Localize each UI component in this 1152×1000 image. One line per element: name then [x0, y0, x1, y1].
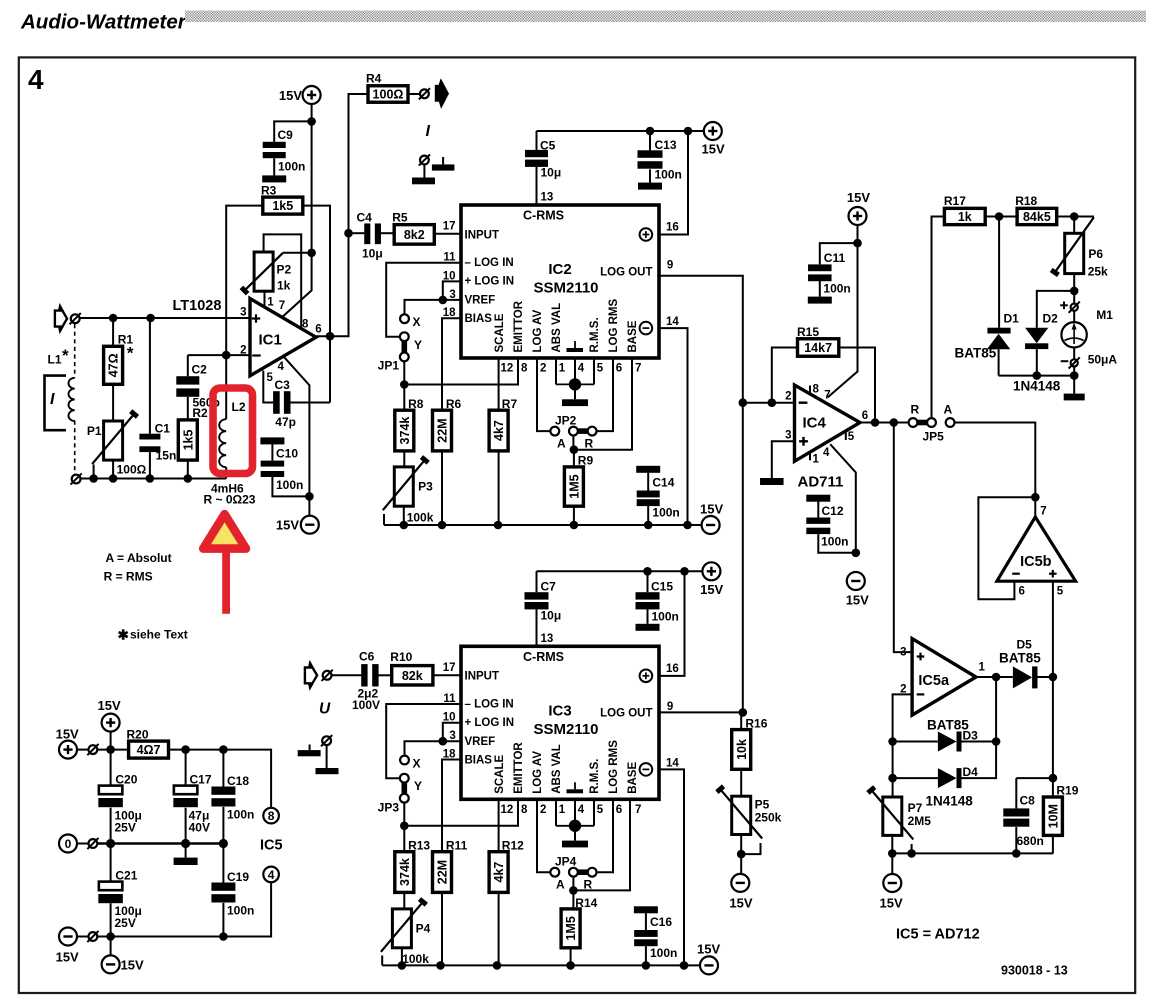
svg-text:C20: C20: [115, 773, 137, 787]
resistor R3: [263, 197, 303, 214]
output connector arrow I: [435, 78, 449, 109]
IC4 pin 5 tick: [845, 431, 847, 440]
wire: IC3 pin 9 LOG OUT to R16: [658, 711, 741, 713]
-15V input terminal: [59, 928, 77, 946]
svg-text:IC5: IC5: [260, 838, 283, 854]
wire: D1 D2 M1 common: [999, 375, 1075, 377]
svg-text:R19: R19: [1056, 784, 1078, 798]
svg-text:*: *: [62, 346, 69, 365]
svg-text:100n: 100n: [823, 281, 850, 295]
svg-text:– LOG IN: – LOG IN: [465, 257, 514, 269]
IC3 internal ground symbol: [574, 782, 576, 789]
jack I ground lug: [420, 156, 429, 165]
wire: IC3 pin 2 to JP4 A: [537, 799, 550, 872]
svg-text:15V: 15V: [702, 142, 725, 157]
header hatched bar: [185, 11, 1146, 23]
wire: P6 to meter node: [1073, 274, 1075, 304]
svg-text:R7: R7: [502, 397, 518, 411]
wire: R10 to IC3 pin 17: [433, 674, 461, 676]
svg-text:R11: R11: [446, 838, 468, 852]
resistor R16: [740, 712, 742, 729]
svg-text:16: 16: [666, 222, 679, 234]
capacitor C1: [149, 318, 151, 434]
svg-text:C14: C14: [652, 475, 674, 489]
svg-text:4: 4: [823, 447, 830, 459]
svg-text:25k: 25k: [1088, 265, 1108, 279]
wire: IC2 pin 10 bracket: [443, 281, 461, 300]
svg-text:SCALE: SCALE: [494, 754, 506, 793]
svg-text:25V: 25V: [115, 821, 136, 835]
svg-text:Y: Y: [414, 779, 422, 793]
ground (C15): [636, 624, 660, 631]
svg-text:P5: P5: [755, 798, 770, 812]
svg-text:6: 6: [1019, 586, 1025, 598]
wire: IC3 pin 3 VREF to X: [405, 741, 462, 756]
svg-text:5: 5: [1057, 586, 1064, 598]
potentiometer P5: [732, 796, 751, 834]
svg-text:15V: 15V: [700, 502, 723, 517]
svg-text:1: 1: [559, 363, 566, 375]
svg-text:7: 7: [635, 804, 641, 816]
+15V supply (IC1): [303, 86, 321, 104]
ground (jack U): [316, 768, 339, 774]
ground (jack I): [412, 178, 435, 185]
svg-text:1k5: 1k5: [181, 430, 195, 451]
svg-text:15V: 15V: [729, 895, 752, 910]
wire: R18 to P6: [1057, 216, 1094, 218]
wire: R3 right to output: [303, 206, 330, 403]
svg-text:15V: 15V: [56, 727, 79, 742]
ground (C13): [638, 183, 662, 190]
svg-text:47Ω: 47Ω: [107, 353, 121, 377]
svg-text:BAT85: BAT85: [999, 651, 1041, 666]
wire: IC3 pins 1-4-5 tie: [555, 799, 557, 826]
jumper JP3 Y terminal: [400, 774, 409, 783]
resistor R2: [178, 420, 197, 460]
svg-text:6: 6: [616, 804, 622, 816]
wire: IC2 pin 9 LOG OUT: [659, 276, 743, 713]
capacitor C11: [820, 243, 858, 264]
wire: R6 R7 bottoms to rail: [441, 451, 443, 525]
capacitor C9: [274, 121, 311, 141]
svg-text:100V: 100V: [352, 698, 380, 712]
svg-text:9: 9: [667, 701, 673, 713]
svg-text:10μ: 10μ: [362, 247, 383, 261]
wire: D5 node down to R19/C8: [1052, 677, 1054, 797]
wire: -15V rail to pin 4: [97, 936, 223, 938]
IC2 plus terminal: [640, 228, 653, 241]
svg-text:R16: R16: [745, 717, 767, 731]
wire: +15V rail over IC3: [537, 570, 703, 572]
resistor R7: [489, 410, 508, 451]
svg-text:C10: C10: [276, 447, 298, 461]
svg-text:374k: 374k: [398, 858, 412, 886]
wire: IC2 pin 11 to jumper Y: [386, 263, 461, 337]
wire: IC3 pin 18 to R11: [442, 760, 461, 852]
wire: JP1 to bias node: [403, 361, 405, 410]
svg-text:R4: R4: [366, 72, 382, 86]
svg-text:3: 3: [240, 307, 246, 319]
ground (IC4 +input): [760, 478, 784, 485]
svg-text:siehe Text: siehe Text: [130, 627, 188, 641]
svg-text:C3: C3: [275, 378, 291, 392]
resistor R18: [1017, 208, 1057, 224]
output jack I: [408, 93, 420, 95]
wire: IC2 pin 14 to -15V rail: [659, 328, 688, 525]
wire: IC5a output: [976, 676, 1013, 678]
svg-text:100k: 100k: [402, 952, 429, 966]
+15V supply (IC3 rail): [702, 562, 720, 580]
svg-text:4: 4: [578, 363, 585, 375]
L2 red highlight box: [213, 388, 253, 474]
svg-text:LOG RMS: LOG RMS: [608, 299, 620, 353]
svg-text:R20: R20: [127, 728, 149, 742]
svg-text:15V: 15V: [880, 896, 903, 911]
svg-text:4: 4: [268, 868, 275, 882]
svg-text:C2: C2: [192, 362, 208, 376]
meter M1 plus terminal: [1071, 304, 1078, 311]
svg-text:0: 0: [65, 837, 72, 851]
wire: IC1 pin 4 to -15V: [284, 357, 310, 516]
jumper JP2: [550, 427, 559, 436]
wire: IC2 pin 2 to JP2 A: [537, 358, 550, 431]
svg-text:4: 4: [578, 804, 585, 816]
svg-text:9: 9: [667, 260, 673, 272]
svg-text:15V: 15V: [847, 190, 870, 205]
capacitor C14: [647, 473, 649, 491]
resistor R15: [798, 339, 839, 357]
svg-text:17: 17: [443, 662, 456, 674]
ground (C11): [808, 297, 832, 304]
wire: R15 left lead: [772, 348, 798, 403]
wire: R5 to IC2 pin 17: [434, 233, 461, 235]
capacitor C17: [185, 750, 187, 786]
resistor R11: [433, 852, 452, 893]
svg-text:7: 7: [635, 363, 641, 375]
svg-text:LOG AV: LOG AV: [532, 751, 544, 794]
op-amp IC5a: [912, 639, 976, 716]
svg-text:100n: 100n: [278, 160, 305, 174]
svg-text:R15: R15: [797, 325, 819, 339]
0V input terminal: [59, 835, 77, 853]
diode D1 BAT85: [998, 217, 1000, 328]
svg-text:IC1: IC1: [259, 332, 282, 349]
svg-text:LOG RMS: LOG RMS: [608, 740, 620, 794]
wire: IC2 pin 6 to JP2 R: [596, 358, 613, 431]
jumper JP1 lower terminal: [400, 353, 409, 362]
svg-text:5: 5: [848, 431, 855, 443]
wire: IC4 output to JP5: [860, 422, 909, 424]
jumper JP1 Y terminal: [400, 332, 409, 341]
svg-text:SCALE: SCALE: [494, 313, 506, 352]
svg-text:1N4148: 1N4148: [926, 793, 974, 808]
svg-text:14: 14: [666, 757, 679, 769]
svg-text:R.M.S.: R.M.S.: [589, 759, 601, 794]
svg-text:C-RMS: C-RMS: [523, 209, 564, 223]
wire: IC5b feedback to pin 6: [978, 497, 1035, 599]
svg-text:C13: C13: [655, 138, 677, 152]
+15V supply (IC4): [849, 207, 867, 225]
P4 wiper to rail: [381, 956, 383, 966]
svg-text:A: A: [944, 403, 953, 417]
wire: IC3 pin 13 stub: [536, 609, 538, 646]
wire: +15V rail over IC2: [537, 130, 704, 132]
svg-text:C18: C18: [227, 774, 249, 788]
wire: -15V rail (IC2 section): [384, 524, 702, 526]
-15V supply (IC1): [301, 516, 319, 534]
resistor R8: [395, 410, 414, 451]
svg-text:14: 14: [666, 316, 679, 328]
svg-text:D4: D4: [963, 765, 979, 779]
svg-text:100Ω: 100Ω: [117, 462, 147, 476]
svg-text:D5: D5: [1017, 638, 1033, 652]
capacitor C4: [349, 232, 365, 234]
svg-text:6: 6: [862, 410, 868, 422]
svg-text:D1: D1: [1004, 312, 1020, 326]
svg-text:L2: L2: [232, 400, 246, 414]
input return jack: [72, 475, 81, 484]
wire: IC3 pin 10 bracket: [443, 723, 461, 742]
svg-text:100n: 100n: [655, 168, 682, 182]
op-amp IC5b (pointing up): [997, 517, 1076, 581]
svg-text:R8: R8: [408, 397, 424, 411]
svg-text:R = RMS: R = RMS: [104, 569, 153, 583]
ground (0V rail): [185, 844, 187, 858]
resistor R12: [489, 852, 508, 893]
inductor L2: [225, 355, 227, 419]
-15V supply (P5): [740, 854, 742, 874]
svg-text:JP3: JP3: [378, 800, 400, 814]
svg-text:JP4: JP4: [555, 855, 577, 869]
svg-text:IC3: IC3: [548, 702, 571, 719]
svg-text:3: 3: [785, 429, 791, 441]
resistor R5: [394, 225, 434, 245]
svg-text:C17: C17: [190, 773, 212, 787]
svg-text:100n: 100n: [650, 946, 677, 960]
IC3 minus terminal: [640, 763, 653, 776]
svg-text:R18: R18: [1015, 194, 1037, 208]
-15V supply (IC4): [847, 572, 865, 590]
wire: IC1 output: [316, 94, 368, 336]
wire: meter node to D2: [1037, 291, 1074, 328]
svg-text:I: I: [50, 391, 55, 408]
svg-text:R3: R3: [261, 183, 277, 197]
capacitor C10: [271, 443, 273, 460]
svg-text:BASE: BASE: [627, 762, 639, 794]
svg-text:15V: 15V: [279, 88, 302, 103]
chassis lug (jack I): [442, 157, 444, 164]
capacitor C6: [332, 674, 362, 676]
transformer L1 dashed link: [74, 324, 76, 378]
wire: IC3 pin 11 to jumper Y: [386, 704, 461, 778]
wire: R11 R12 bottoms to rail: [441, 892, 443, 965]
wire: IC4 output down to IC5a pin 3: [894, 423, 912, 653]
P1 wiper to ground rail: [93, 465, 95, 479]
svg-text:12: 12: [501, 804, 514, 816]
svg-text:1k5: 1k5: [272, 199, 293, 213]
svg-text:22M: 22M: [436, 860, 450, 884]
svg-text:R13: R13: [408, 838, 430, 852]
svg-text:R.M.S.: R.M.S.: [589, 317, 601, 352]
resistor R14: [561, 909, 580, 948]
svg-text:C9: C9: [278, 128, 294, 142]
-15V supply (IC5a): [883, 874, 901, 892]
svg-text:13: 13: [541, 192, 554, 204]
capacitor C8: [1015, 778, 1017, 808]
capacitor C21: [110, 844, 112, 882]
svg-text:R10: R10: [390, 650, 412, 664]
ground (C9): [262, 175, 286, 182]
ground (IC3 pins): [562, 841, 588, 848]
svg-text:C5: C5: [540, 139, 556, 153]
svg-text:7: 7: [1040, 506, 1046, 518]
svg-text:82k: 82k: [402, 669, 423, 683]
svg-text:50μA: 50μA: [1088, 353, 1118, 367]
wire: R13 to P4: [403, 892, 405, 909]
wire: IC4 non-inverting input to ground: [772, 441, 795, 478]
svg-text:I: I: [426, 123, 431, 140]
svg-text:IC2: IC2: [548, 261, 571, 278]
svg-text:5: 5: [267, 372, 274, 384]
wire: JP5 A to IC5b output node: [955, 423, 1036, 517]
svg-text:C6: C6: [359, 650, 375, 664]
resistor R9: [564, 467, 583, 506]
P7 wiper down to rail: [911, 844, 913, 853]
inductor L1 coil: [69, 378, 75, 421]
svg-text:680n: 680n: [1017, 834, 1044, 848]
wire: JP5 common up to R17: [932, 217, 945, 419]
potentiometer P7: [883, 797, 902, 835]
capacitor C12: [817, 502, 819, 518]
svg-text:C7: C7: [541, 580, 557, 594]
svg-text:8: 8: [521, 363, 528, 375]
wire: D3 to output node: [995, 677, 997, 742]
svg-text:374k: 374k: [398, 417, 412, 445]
svg-text:INPUT: INPUT: [465, 671, 500, 683]
svg-text:R: R: [585, 437, 594, 451]
svg-text:15V: 15V: [697, 942, 720, 957]
jumper JP1 X terminal: [400, 314, 409, 323]
ground bar (C16 top): [634, 906, 658, 913]
svg-text:LOG OUT: LOG OUT: [600, 708, 652, 720]
svg-text:16: 16: [666, 663, 679, 675]
svg-text:10k: 10k: [735, 739, 749, 760]
-15V supply (IC2 rail): [702, 516, 720, 534]
svg-text:INPUT: INPUT: [465, 229, 500, 241]
svg-text:1: 1: [559, 804, 566, 816]
diode D5 BAT85: [1013, 666, 1032, 688]
svg-text:P4: P4: [416, 921, 431, 935]
svg-text:EMITTOR: EMITTOR: [513, 742, 525, 794]
svg-text:17: 17: [443, 221, 456, 233]
svg-text:250k: 250k: [755, 811, 782, 825]
wire: P2 wiper to +15V line: [283, 252, 312, 254]
svg-text:EMITTOR: EMITTOR: [513, 300, 525, 352]
svg-text:8: 8: [521, 804, 528, 816]
diode D3 BAT85: [893, 741, 938, 743]
svg-text:8k2: 8k2: [404, 228, 425, 242]
svg-text:✱: ✱: [118, 628, 130, 643]
potentiometer P3: [394, 467, 413, 506]
trimpot P2: [264, 291, 266, 307]
svg-text:JP5: JP5: [923, 430, 945, 444]
wire: IC3 pin 6 to JP4 R: [596, 799, 613, 872]
svg-text:2: 2: [240, 344, 246, 356]
svg-text:R6: R6: [446, 397, 462, 411]
svg-text:100n: 100n: [276, 478, 303, 492]
svg-text:R5: R5: [392, 211, 408, 225]
IC IC2 SSM2110 body: [461, 205, 659, 358]
-15V supply (IC3 rail): [700, 956, 718, 974]
wire: bias node to IC2 pin 8: [404, 358, 518, 385]
P5 wiper loop: [741, 843, 760, 854]
svg-text:4: 4: [28, 64, 44, 95]
capacitor C13: [649, 131, 651, 150]
jumper JP5: [909, 418, 918, 427]
capacitor C7: [525, 592, 549, 599]
+15V supply (IC2 rail): [704, 122, 722, 140]
svg-text:15V: 15V: [121, 958, 144, 973]
wire: R15 right to IC4 output: [839, 348, 875, 423]
svg-text:1: 1: [813, 453, 820, 465]
svg-text:Audio-Wattmeter: Audio-Wattmeter: [20, 11, 187, 34]
svg-text:8: 8: [268, 809, 275, 823]
diode D2: [1025, 343, 1048, 349]
input connector I+ (chevron): [58, 303, 64, 311]
svg-text:C-RMS: C-RMS: [523, 650, 564, 664]
svg-text:D2: D2: [1043, 312, 1059, 326]
svg-text:2: 2: [785, 391, 791, 403]
svg-text:BIAS: BIAS: [465, 313, 493, 325]
svg-text:15V: 15V: [846, 593, 869, 608]
svg-text:*: *: [127, 344, 134, 363]
IC2 internal ground symbol: [574, 341, 576, 348]
wire: IC4 pin 4 to -15V: [830, 444, 856, 553]
svg-text:15V: 15V: [276, 518, 299, 533]
svg-text:L1: L1: [48, 353, 62, 367]
svg-text:C1: C1: [155, 422, 171, 436]
input connector U (chevron): [308, 660, 314, 668]
svg-text:BAT85: BAT85: [955, 345, 997, 360]
wire: -15V rail (IC3 section): [382, 964, 700, 966]
svg-text:1M5: 1M5: [568, 474, 582, 498]
svg-text:10μ: 10μ: [541, 166, 562, 180]
svg-text:100n: 100n: [652, 610, 679, 624]
wire: IC2 pin 13 stub: [536, 166, 538, 205]
svg-text:4Ω7: 4Ω7: [137, 743, 161, 757]
svg-text:IC4: IC4: [803, 415, 827, 432]
svg-text:1k: 1k: [958, 210, 972, 224]
svg-text:VREF: VREF: [465, 295, 496, 307]
svg-text:100n: 100n: [652, 505, 679, 519]
capacitor C18: [222, 750, 224, 787]
capacitor C20: [110, 750, 112, 786]
wire: R17 to R18: [985, 216, 1017, 218]
ground (meter): [1064, 394, 1085, 401]
ground bar (C12 top): [806, 495, 830, 502]
svg-text:8: 8: [302, 318, 309, 330]
svg-text:2M5: 2M5: [908, 814, 932, 828]
svg-text:12: 12: [501, 363, 514, 375]
potentiometer P6 (rheostat): [1073, 217, 1075, 234]
svg-text:+ LOG IN: + LOG IN: [465, 276, 515, 288]
svg-text:10M: 10M: [1047, 804, 1061, 828]
svg-text:14k7: 14k7: [804, 341, 832, 355]
potentiometer P4: [392, 909, 411, 948]
capacitor C15: [647, 571, 649, 592]
wire: log-out net to IC4 inverting input: [743, 402, 795, 404]
svg-text:100n: 100n: [227, 904, 254, 918]
